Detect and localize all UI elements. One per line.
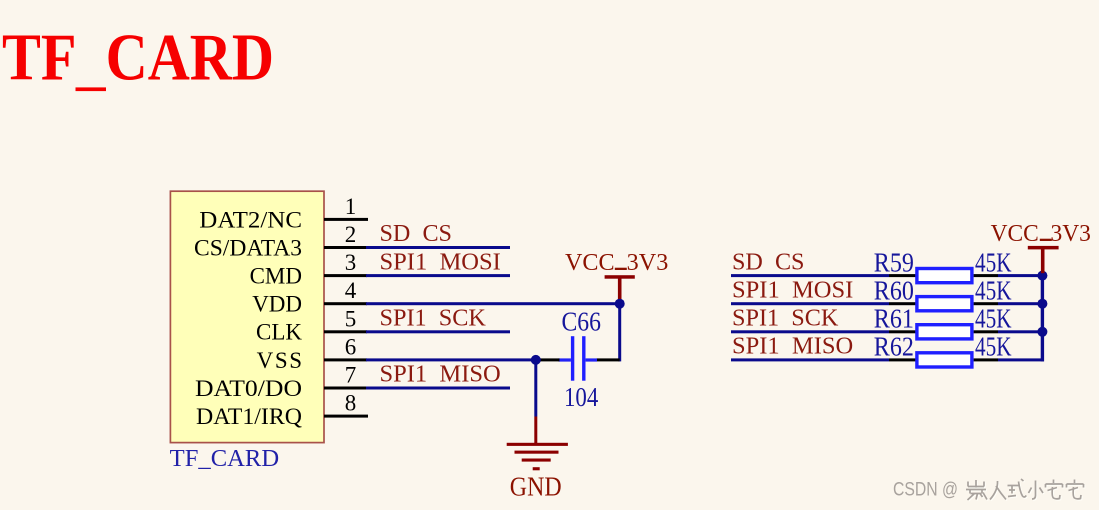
- pin 8 stub: [324, 391, 368, 418]
- watermark char 式: [1008, 479, 1027, 497]
- junction dot R59: [1037, 271, 1047, 281]
- wire R61 to vertical: [998, 330, 1044, 333]
- resistor R61 pins (black): [889, 330, 998, 333]
- wire cap right pin (black): [597, 358, 620, 361]
- svg-text:CMD: CMD: [250, 264, 302, 289]
- svg-text:R59: R59: [874, 247, 914, 277]
- wire SPI1_SCK right: [731, 330, 889, 333]
- wire SPI1_MISO from pin 7: [366, 387, 510, 390]
- pin 7 stub: [324, 363, 367, 390]
- svg-text:DAT2/NC: DAT2/NC: [199, 207, 302, 232]
- svg-text:45K: 45K: [975, 332, 1012, 362]
- power symbol VCC_3V3 (left): [565, 250, 668, 303]
- svg-text:45K: 45K: [975, 304, 1012, 334]
- svg-text:CSDN @: CSDN @: [893, 478, 958, 500]
- svg-text:R60: R60: [874, 275, 914, 305]
- power symbol VCC_3V3 (right): [991, 221, 1091, 273]
- wire R59 to vertical: [998, 274, 1044, 277]
- svg-text:1: 1: [345, 194, 357, 219]
- svg-text:SD CS: SD CS: [732, 249, 805, 275]
- svg-text:CS/DATA3: CS/DATA3: [194, 235, 302, 260]
- svg-text:VCC: VCC: [991, 221, 1039, 247]
- wire VSS from pin 6 to cap junction: [366, 358, 537, 361]
- resistor R59 pins (black): [889, 274, 998, 277]
- wire SD_CS right: [731, 274, 889, 277]
- watermark char 小: [1029, 481, 1044, 500]
- svg-text:VCC: VCC: [565, 250, 615, 276]
- svg-text:3V3: 3V3: [1051, 221, 1091, 247]
- svg-text:2: 2: [345, 222, 357, 247]
- svg-text:TF_CARD: TF_CARD: [170, 446, 279, 472]
- watermark char 嵌: [966, 480, 987, 500]
- svg-text:R61: R61: [874, 304, 914, 334]
- resistor R61: [917, 325, 972, 339]
- wire VCC junction down to cap right: [618, 304, 621, 362]
- pin 5 stub: [324, 306, 367, 333]
- wire R60 to vertical: [998, 302, 1044, 305]
- svg-text:104: 104: [564, 382, 599, 412]
- svg-text:45K: 45K: [975, 275, 1012, 305]
- junction dot VDD/VCC: [615, 299, 625, 309]
- wire SPI1_MISO right: [731, 358, 889, 361]
- svg-text:4: 4: [345, 278, 357, 303]
- wire SD_CS from pin 2: [366, 246, 510, 249]
- pin 4 stub: [324, 278, 367, 305]
- svg-text:SPI1 MISO: SPI1 MISO: [732, 334, 853, 360]
- watermark char 宅 (2): [1067, 480, 1084, 499]
- ground GND: [507, 417, 568, 502]
- svg-text:DAT1/IRQ: DAT1/IRQ: [196, 404, 302, 429]
- component U TF_CARD box: [170, 191, 324, 442]
- watermark char 宅: [1046, 480, 1063, 499]
- svg-text:GND: GND: [510, 472, 562, 502]
- pin 2 stub: [324, 222, 367, 249]
- svg-text:SPI1 MOSI: SPI1 MOSI: [732, 277, 853, 303]
- watermark char 入: [990, 481, 1006, 500]
- junction dot R61: [1037, 327, 1047, 337]
- wire SPI1_SCK from pin 5: [366, 330, 510, 333]
- svg-text:DAT0/DO: DAT0/DO: [195, 376, 302, 401]
- svg-text:8: 8: [345, 391, 357, 416]
- wire VDD from pin 4 to VCC junction: [366, 302, 621, 305]
- svg-text:45K: 45K: [975, 247, 1012, 277]
- svg-text:VDD: VDD: [252, 292, 302, 317]
- svg-text:R62: R62: [874, 332, 914, 362]
- junction dot VSS/cap/GND: [531, 355, 541, 365]
- wire R62 to vertical corner: [998, 358, 1044, 361]
- svg-text:3: 3: [345, 250, 357, 275]
- svg-text:SPI1 SCK: SPI1 SCK: [732, 306, 839, 332]
- svg-text:5: 5: [345, 306, 357, 331]
- wire SPI1_MOSI right: [731, 302, 889, 305]
- svg-text:TF: TF: [2, 21, 77, 95]
- pin 1 stub: [324, 194, 368, 221]
- wire junction down to GND: [534, 360, 537, 417]
- watermark CJK glyphs: [967, 480, 1085, 501]
- svg-text:SD CS: SD CS: [380, 221, 453, 247]
- svg-text:6: 6: [345, 334, 357, 359]
- wire vertical bus to VCC (right): [1041, 274, 1044, 361]
- resistor R62 pins (black): [889, 358, 998, 361]
- resistor R62: [917, 353, 972, 367]
- resistor R59: [917, 269, 972, 283]
- resistor R60 pins (black): [889, 302, 998, 305]
- wire SPI1_MOSI from pin 3: [366, 274, 510, 277]
- capacitor C66: [559, 336, 598, 381]
- svg-text:VSS: VSS: [257, 348, 302, 373]
- svg-text:SPI1 MOSI: SPI1 MOSI: [380, 249, 501, 275]
- capacitor C66 left pin (black): [541, 358, 560, 361]
- svg-text:CLK: CLK: [256, 320, 302, 345]
- svg-text:CARD: CARD: [106, 21, 274, 95]
- svg-text:7: 7: [345, 363, 357, 388]
- junction dot R60: [1037, 299, 1047, 309]
- pin 3 stub: [324, 250, 367, 277]
- svg-text:C66: C66: [562, 307, 602, 337]
- pin 6 stub: [324, 334, 367, 361]
- resistor R60: [917, 297, 972, 311]
- svg-text:SPI1 MISO: SPI1 MISO: [380, 362, 501, 388]
- svg-text:SPI1 SCK: SPI1 SCK: [380, 306, 487, 332]
- svg-text:3V3: 3V3: [627, 250, 669, 276]
- title TF_CARD: [2, 21, 274, 95]
